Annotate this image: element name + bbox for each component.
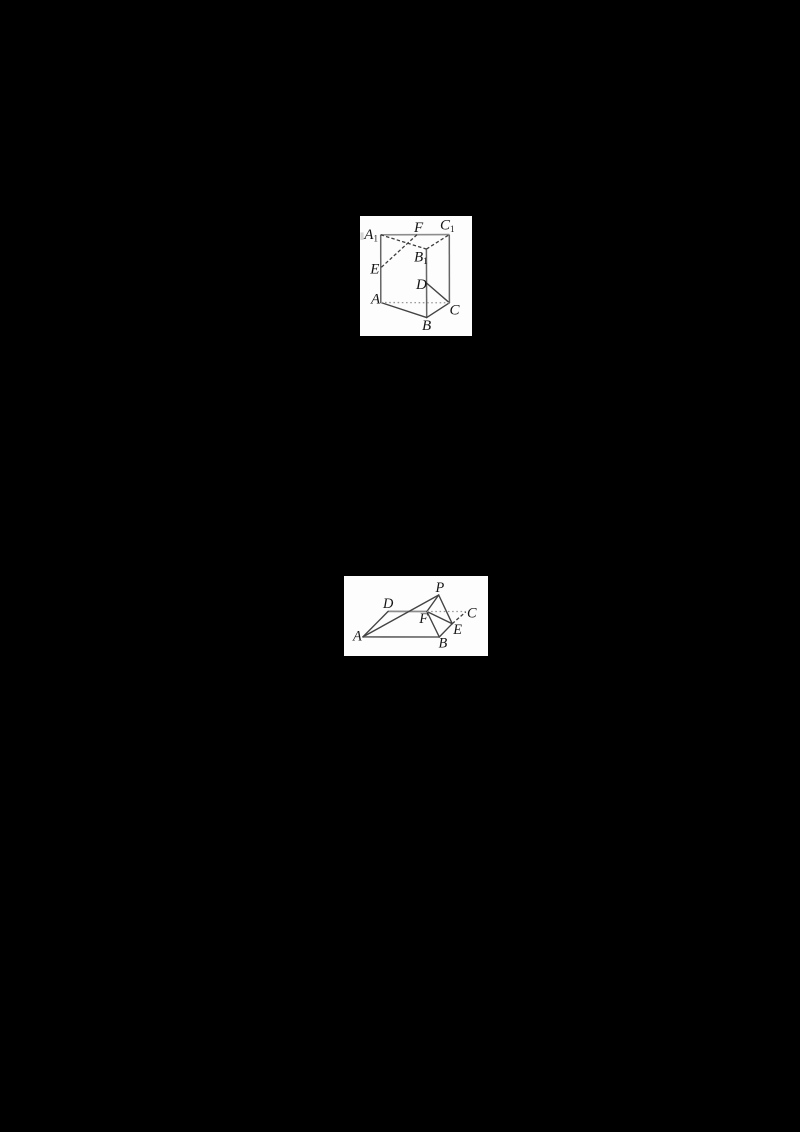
svg-text:A: A (370, 292, 381, 308)
svg-text:D: D (382, 595, 394, 611)
svg-text:A: A (352, 628, 362, 644)
svg-text:F: F (418, 610, 428, 626)
svg-text:E: E (452, 622, 462, 638)
svg-text:C: C (450, 303, 461, 319)
svg-text:B: B (422, 318, 431, 334)
svg-text:F: F (413, 220, 424, 236)
svg-text:C1: C1 (440, 218, 455, 235)
svg-text:P: P (435, 579, 445, 595)
svg-text:C: C (467, 605, 477, 621)
svg-text:B: B (439, 635, 448, 651)
svg-text:A1: A1 (363, 227, 378, 244)
svg-text:E: E (369, 262, 379, 278)
svg-text:D: D (415, 277, 427, 293)
svg-text:B1: B1 (414, 249, 428, 266)
